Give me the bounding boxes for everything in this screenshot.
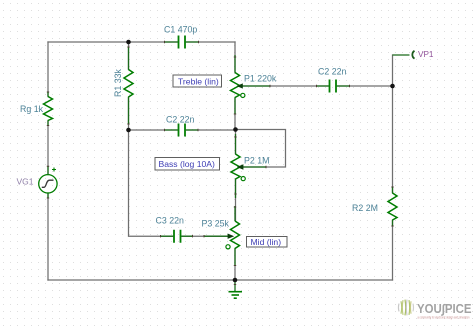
svg-text:VG1: VG1 — [17, 177, 34, 187]
svg-text:P2 1M: P2 1M — [244, 156, 269, 166]
svg-text:C3 22n: C3 22n — [156, 216, 184, 226]
svg-text:C2 22n: C2 22n — [318, 67, 346, 77]
svg-text:R1 33k: R1 33k — [113, 69, 123, 97]
svg-text:P1 220k: P1 220k — [244, 74, 277, 84]
svg-text:R2 2M: R2 2M — [352, 203, 378, 213]
svg-text:P3 25k: P3 25k — [202, 219, 230, 229]
svg-text:Rg 1k: Rg 1k — [20, 104, 44, 114]
svg-text:Mid (lin): Mid (lin) — [251, 237, 282, 247]
svg-text:C2 22n: C2 22n — [166, 115, 194, 125]
svg-text:Bass (log 10A): Bass (log 10A) — [159, 159, 216, 169]
svg-text:YOU∫PICE: YOU∫PICE — [417, 302, 472, 316]
svg-text:a community for electronic des: a community for electronic design and si… — [418, 316, 470, 320]
svg-text:Treble (lin): Treble (lin) — [178, 76, 219, 86]
svg-text:VP1: VP1 — [418, 50, 434, 59]
svg-text:C1 470p: C1 470p — [164, 25, 197, 35]
